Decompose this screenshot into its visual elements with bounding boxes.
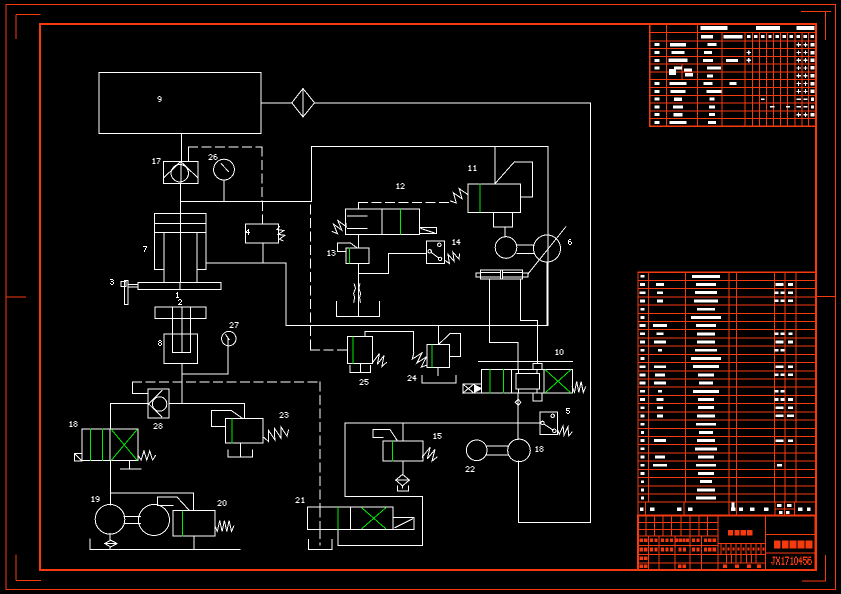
solenoid of valve 18: [74, 454, 82, 461]
spring of valve 11: [451, 189, 468, 204]
pressure switch 14: [427, 241, 445, 263]
bottom port bracket of valve 10: [533, 393, 542, 401]
wire valve10 down to junction: [517, 393, 519, 440]
pressure gauge 26: [214, 159, 235, 180]
hand lever 3: [121, 281, 138, 305]
filter F (diamond): [292, 89, 315, 118]
label 17: [154, 158, 155, 159]
wire frame top to valve 11: [494, 147, 496, 184]
wire tank9 bottom to check valve 17: [180, 133, 182, 161]
wire valve18 to pump 19: [110, 461, 112, 506]
corner mark bottom-left: [16, 555, 41, 581]
label 20: [219, 500, 221, 501]
BOM parts list table grid: [638, 272, 816, 515]
label 23: [281, 412, 283, 413]
label 18 (booster): [537, 446, 538, 447]
dashed pilot line D to valve 21: [319, 382, 321, 545]
wire filter to right down-feed: [315, 102, 591, 104]
directional valve 10 (4/3 solenoid): [482, 369, 573, 393]
wire gauge26 stem: [223, 180, 225, 201]
wire cross line to valve 5: [345, 422, 540, 424]
reference line near label 10: [479, 361, 573, 363]
variable pump 6: [534, 235, 561, 262]
upper-right table grid: [650, 24, 817, 126]
spring of valve 10: [572, 382, 585, 393]
wire junction to booster top: [517, 423, 519, 440]
big circuit frame left edge (solid part): [310, 147, 312, 202]
label 12: [398, 183, 399, 184]
cartridge valve 11: [468, 184, 521, 213]
wire valve25 pilot loop to valve24 spring side: [365, 332, 414, 353]
pilot line into check 28: [133, 382, 149, 393]
spring of valve 5: [558, 426, 573, 436]
feedback cylinder (horizontal): [476, 270, 528, 279]
spring of valve 12: [332, 221, 346, 234]
press platen 1: [138, 283, 221, 290]
coupling bars pump19-motor: [124, 517, 140, 524]
unloading valve 25: [347, 337, 372, 364]
corner mark top-left: [16, 15, 41, 40]
counterbalance valve 4: [245, 224, 278, 243]
pilot check valve 28: [148, 389, 169, 418]
bracket under valve 11: [494, 213, 513, 237]
dashed pilot line B to valve 25: [310, 349, 347, 351]
tank symbol under valve 23: [228, 443, 252, 457]
wire valve12 to valve13: [358, 234, 360, 247]
wire cylinder8 down to manifold: [181, 364, 183, 404]
wire lower-left manifold: [111, 403, 245, 405]
centering tick left: [6, 296, 26, 298]
wire cylinder B-line to valve 10: [521, 279, 538, 364]
wire check17 to cylinder 7 rod line: [180, 183, 182, 282]
pressure gauge 27: [222, 331, 236, 345]
label 21: [297, 497, 299, 498]
label 6: [569, 239, 571, 240]
label 11: [470, 165, 471, 166]
pump 19: [95, 505, 125, 535]
label 14: [454, 239, 455, 240]
wire manifold down to valve 18: [110, 404, 112, 430]
clamp cylinder 8: [164, 334, 197, 364]
pilot dashed line to valve 4: [261, 201, 263, 223]
flexible hose marks: [354, 284, 361, 303]
pressure switch 5: [540, 412, 558, 434]
label 4: [248, 229, 249, 230]
coupling bars 22-18: [487, 446, 508, 455]
tank stub under valve 18: [121, 461, 141, 469]
wire main right down-feed: [590, 103, 592, 523]
big circuit frame top edge: [311, 146, 548, 148]
label 10: [557, 349, 558, 350]
sequence valve 24: [427, 345, 449, 368]
directional valve 21 (2 position): [308, 507, 393, 529]
pilot loop of valve 24: [439, 334, 461, 357]
label 26: [210, 154, 212, 155]
upper-right table text: [655, 26, 815, 124]
pilot loop of valve 11: [495, 162, 533, 197]
relief valve 20: [158, 497, 216, 536]
press tool 2: [155, 307, 206, 353]
hydraulic motor small circle: [495, 237, 517, 259]
coupling bars motor-pump 6: [517, 245, 534, 254]
bottom return line: [90, 539, 240, 550]
wire cylinder A-line to valve 10: [490, 279, 518, 369]
big circuit frame right edge: [547, 147, 549, 326]
suction strainer diamond under pump 19: [105, 533, 118, 549]
wire tank9 outlet to filter: [261, 102, 292, 104]
wire branch to gauge 27: [182, 339, 228, 374]
dashed pilot line A: [309, 205, 311, 349]
wire valve21 loop to cross line: [338, 423, 423, 545]
wire lower manifold line L1: [286, 324, 547, 326]
tank under valve 13: [337, 299, 380, 316]
wire pump6 drain to L1: [546, 262, 548, 325]
centering tick right: [816, 296, 836, 298]
spring of valve 14: [445, 252, 459, 263]
wire through booster down and to right riser: [519, 461, 591, 522]
drain box right of valve 12: [419, 228, 436, 234]
label 27: [231, 322, 233, 323]
label 7: [143, 246, 147, 247]
tank bracket under filter: [397, 486, 408, 491]
directional valve 18 (4/2 solenoid): [82, 429, 138, 461]
label 15: [435, 433, 436, 434]
BOM table text: [640, 275, 811, 514]
electric motor circle (pump drive): [139, 505, 170, 536]
wire branch to valve 20: [111, 493, 194, 511]
spring of valve 24: [412, 353, 427, 367]
tank under valve 24: [422, 367, 456, 383]
wire main pressure line: [181, 200, 312, 202]
wire valve23 feed: [243, 404, 245, 419]
label 2: [179, 299, 181, 300]
cylinder 7 (main ram): [154, 213, 206, 282]
wire L1 to valve 24: [438, 325, 440, 344]
flow marker diamond: [515, 399, 521, 405]
booster pump circle 22: [466, 440, 487, 461]
check valve 17 (pilot operated): [164, 161, 198, 183]
spring of valve 23: [264, 427, 289, 442]
dashed pilot line C: [133, 381, 321, 383]
wire valve15 to filter: [402, 461, 404, 474]
wire cross line to valve 15: [402, 423, 404, 441]
throttle valve 15: [373, 430, 423, 462]
label 3: [110, 279, 113, 280]
wire cylinder7 rod-side port: [206, 263, 286, 325]
tank under valve 25: [350, 364, 371, 373]
spring of valve 18: [138, 451, 155, 460]
pilot valve 12: [345, 209, 419, 234]
spring of valve 4: [277, 227, 285, 241]
tank under valve 21: [309, 540, 332, 550]
pilot dashed line valve12 to valve11 spring: [359, 202, 451, 209]
title block grid: [638, 516, 816, 570]
wire valve13 drain and branch to 14: [359, 253, 427, 299]
spring of valve 20: [215, 521, 234, 532]
label 8: [159, 340, 161, 341]
spring of valve 25: [373, 354, 387, 367]
label 19: [93, 496, 94, 497]
label 28: [155, 423, 157, 424]
corner mark bottom-right: [802, 555, 826, 581]
top port bracket of valve 10: [533, 364, 542, 370]
throttle valve 13: [338, 243, 369, 263]
label 25: [361, 379, 363, 380]
wire valve20 drain: [193, 536, 195, 550]
drain box right of valve 21: [393, 518, 414, 530]
label 13: [329, 250, 330, 251]
label 18: [71, 421, 72, 422]
corner mark top-right: [801, 12, 831, 41]
solenoid of valve 10: [463, 384, 482, 393]
variable arrow through pump 6: [529, 227, 566, 273]
pilot dashed line to check valve 17: [189, 147, 263, 201]
label 22: [467, 466, 469, 467]
booster motor circle 18: [508, 439, 531, 462]
label 1: [177, 292, 178, 293]
label 24: [409, 375, 411, 376]
tank 9 (oil reservoir): [99, 72, 261, 133]
spring of valve 15: [423, 447, 437, 461]
wire valve4 to cylinder line: [262, 243, 264, 263]
label 9: [159, 96, 161, 97]
title block red texts: [640, 530, 813, 568]
filter diamond under valve 15: [396, 474, 410, 485]
label 5: [566, 408, 570, 409]
sequence valve 23: [212, 411, 264, 444]
